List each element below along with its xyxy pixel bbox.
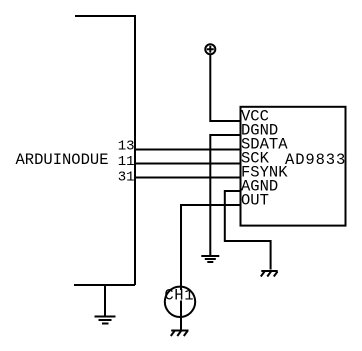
chassis ground GND3 (AGND) [261, 271, 278, 277]
wire pin31 to FSYNK [135, 177, 241, 179]
connector CH1 circle [165, 287, 195, 317]
svg-text:OUT: OUT [241, 192, 269, 210]
ground GND1 (Arduino) [95, 317, 116, 324]
IC U1 AD9833 box [241, 107, 346, 226]
power +V supply symbol [205, 44, 215, 54]
wire pin11 to SCK [135, 163, 241, 165]
svg-text:11: 11 [118, 154, 135, 170]
svg-text:AD9833: AD9833 [285, 151, 346, 169]
wire Arduino block right edge [134, 15, 136, 285]
wire Arduino block top edge [75, 15, 135, 17]
wire DGND to ground [210, 135, 240, 256]
svg-text:CH1: CH1 [164, 286, 194, 304]
svg-text:13: 13 [118, 139, 135, 155]
wire Arduino block bottom edge [74, 284, 135, 286]
wire +V to VCC [210, 54, 240, 121]
wire AGND to chassis ground [225, 191, 271, 270]
wire pin13 to SDATA [135, 149, 241, 151]
svg-text:31: 31 [118, 169, 135, 185]
chassis ground GND4 (CH1) [171, 331, 189, 337]
wire OUT to CH1 connector [181, 205, 241, 290]
ground GND2 (DGND) [201, 256, 219, 262]
svg-text:ARDUINODUE: ARDUINODUE [16, 151, 109, 169]
wire Arduino ground stub [104, 285, 106, 316]
wire inside CH1 to chassis ground [180, 301, 182, 331]
